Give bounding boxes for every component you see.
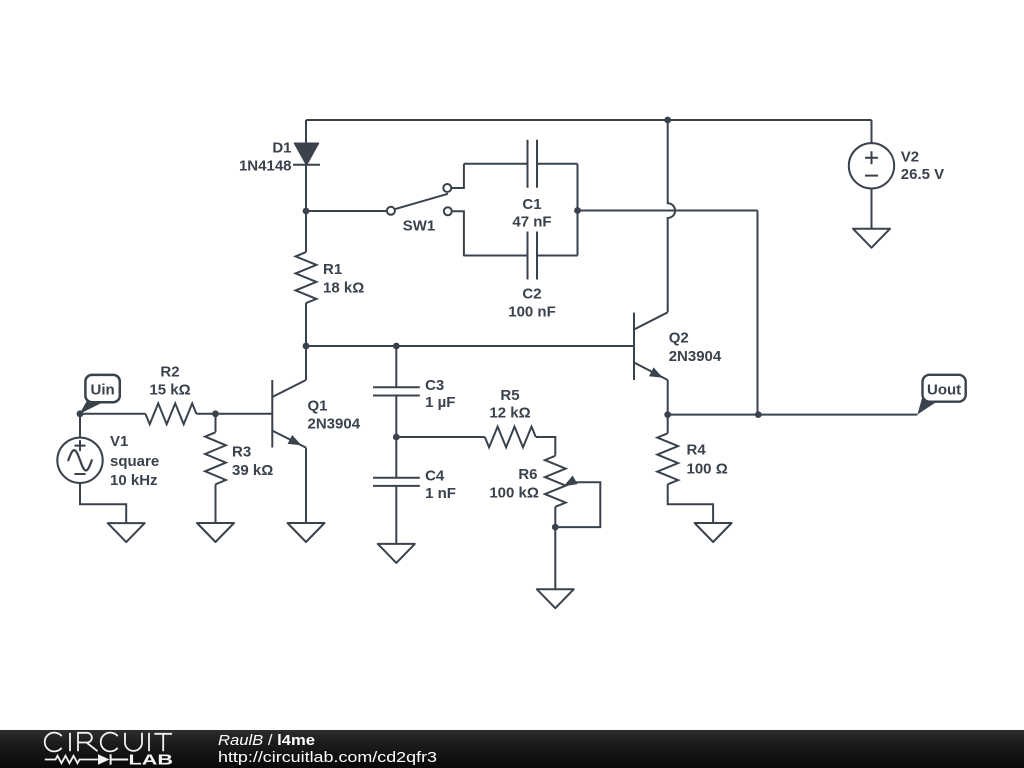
label C1 / 47 nF — [522, 196, 541, 213]
wire V1 to ground — [80, 483, 126, 523]
resistor R4 — [657, 415, 713, 523]
svg-text:C3: C3 — [425, 377, 444, 394]
node junction C-network output — [574, 207, 581, 214]
svg-text:C4: C4 — [425, 468, 445, 485]
logo letter U — [125, 733, 142, 751]
transistor Q2 — [633, 313, 635, 380]
node junction C3 top — [393, 343, 400, 350]
footer title RaulB / l4me — [218, 732, 315, 749]
resistor R2 — [145, 403, 272, 424]
node junction R2/R3/Q1 base — [212, 410, 219, 417]
wire V2 to ground — [871, 189, 873, 229]
logo letter T — [154, 734, 172, 751]
resistor R5 — [485, 427, 556, 456]
node junction C3/C4/R5 — [393, 434, 400, 441]
logo resistor glyph — [45, 756, 98, 763]
label C2 / 100 nF — [522, 286, 541, 303]
ground R3 — [197, 523, 234, 542]
ground R4 — [695, 523, 732, 542]
ground V2 — [853, 229, 890, 248]
svg-text:SW1: SW1 — [403, 218, 436, 235]
svg-text:10 kHz: 10 kHz — [110, 472, 158, 489]
flag Uout — [917, 397, 936, 414]
ground R6 — [537, 589, 574, 608]
wire base rail Q1-collector to Q2-base — [306, 345, 634, 347]
label V1 / square / 10 kHz — [110, 433, 128, 450]
wire SW1 throw1 to C-network top — [451, 164, 464, 188]
source V1 (square 10 kHz) — [57, 438, 102, 483]
wire Q2 collector vertical with hop over — [668, 120, 675, 312]
wire D1 anode from top rail — [305, 120, 307, 143]
wire C-network right side — [577, 164, 579, 256]
logo LAB text — [129, 753, 174, 768]
label C4 / 1 nF — [425, 468, 445, 485]
label R4 / 100 ohm — [687, 442, 707, 459]
wire right vertical down to output row — [757, 211, 759, 415]
label R3 / 39 k — [232, 444, 251, 461]
capacitor C1 — [528, 140, 538, 188]
switch SW1 blade — [395, 194, 448, 209]
svg-text:R1: R1 — [323, 261, 342, 278]
svg-text:47 nF: 47 nF — [512, 214, 551, 231]
node junction dot top rail / Q2 collector — [664, 117, 671, 124]
ground C4 — [378, 544, 415, 563]
ground Q1 emitter — [288, 523, 325, 542]
svg-text:C2: C2 — [522, 286, 541, 303]
node junction Q2 emitter / R4 — [664, 411, 671, 418]
wiper R6 — [564, 476, 578, 487]
label R5 / 12 k — [500, 387, 519, 404]
node junction R6 bottom / wiper — [552, 524, 559, 531]
svg-text:26.5 V: 26.5 V — [901, 166, 944, 183]
svg-text:R3: R3 — [232, 444, 251, 461]
svg-text:12 kΩ: 12 kΩ — [489, 404, 530, 421]
svg-text:1 nF: 1 nF — [425, 485, 456, 502]
svg-text:39 kΩ: 39 kΩ — [232, 462, 273, 479]
logo letter C — [101, 733, 118, 752]
svg-text:1N4148: 1N4148 — [239, 158, 292, 175]
svg-text:D1: D1 — [272, 140, 291, 157]
wire Q2 emitter down — [667, 380, 669, 415]
node A (D1/R1/SW1 junction) — [303, 208, 310, 215]
wire top rail to V2 — [871, 120, 873, 143]
wire input node to R2 — [80, 413, 145, 415]
wire Q1 collector up — [305, 346, 307, 380]
label SW1 — [403, 218, 436, 235]
node junction R1/Q1 collector — [303, 343, 310, 350]
svg-text:Q2: Q2 — [669, 330, 689, 347]
logo diode glyph — [98, 754, 110, 764]
svg-text:100 Ω: 100 Ω — [687, 460, 728, 477]
logo letter I — [69, 733, 71, 751]
logo letter C — [45, 733, 62, 752]
svg-text:R2: R2 — [160, 363, 179, 380]
svg-text:Uout: Uout — [927, 382, 961, 399]
switch SW1 throw terminal 2 — [444, 207, 452, 215]
logo letter I — [148, 733, 150, 751]
wire C-network to right vertical — [578, 210, 758, 212]
ground V1 — [108, 523, 145, 542]
flag Uin — [80, 401, 103, 414]
svg-text:100 nF: 100 nF — [508, 303, 556, 320]
svg-text:18 kΩ: 18 kΩ — [323, 280, 364, 297]
svg-text:Uin: Uin — [91, 382, 115, 399]
label R2 / 15 k — [160, 363, 179, 380]
label D1 / 1N4148 — [272, 140, 291, 157]
resistor R3 — [205, 414, 226, 523]
label Q1 / 2N3904 — [308, 398, 328, 415]
svg-text:100 kΩ: 100 kΩ — [489, 485, 539, 502]
node input junction (V1/Uin/R2) — [77, 410, 84, 417]
svg-text:LAB: LAB — [129, 753, 174, 768]
node junction output / right vertical — [755, 411, 762, 418]
wire SW1 throw2 to C-network bottom — [452, 211, 464, 256]
svg-text:R6: R6 — [518, 466, 537, 483]
label V2 / 26.5 V — [901, 149, 919, 166]
resistor R1 — [296, 211, 317, 346]
svg-text:2N3904: 2N3904 — [669, 348, 722, 365]
capacitor C3 — [395, 346, 397, 387]
footer url — [218, 749, 437, 766]
svg-text:V1: V1 — [110, 433, 128, 450]
label R6 / 100 k — [518, 466, 537, 483]
wire node A to SW1 — [306, 210, 387, 212]
wire D1 cathode to node — [305, 165, 307, 211]
svg-text:V2: V2 — [901, 149, 919, 166]
svg-text:RaulB / l4me: RaulB / l4me — [218, 732, 315, 749]
wire junction to R5 — [396, 436, 485, 438]
label C3 / 1 uF — [425, 377, 444, 394]
wire Q1 emitter down — [305, 448, 307, 523]
wire C1 top rail — [464, 163, 578, 165]
switch SW1 pole terminal — [387, 207, 395, 215]
capacitor C2 — [528, 232, 538, 280]
switch SW1 throw terminal 1 — [443, 184, 451, 192]
svg-text:2N3904: 2N3904 — [308, 416, 361, 433]
svg-text:C1: C1 — [522, 196, 541, 213]
logo letter R — [78, 733, 98, 751]
potentiometer R6 — [545, 456, 566, 589]
label R1 / 18 k — [323, 261, 342, 278]
label Q2 / 2N3904 — [669, 330, 689, 347]
svg-text:15 kΩ: 15 kΩ — [149, 382, 190, 399]
svg-text:square: square — [110, 453, 159, 470]
wire top rail — [306, 119, 872, 121]
wire C2 bottom rail — [464, 255, 578, 257]
capacitor C4 — [395, 437, 397, 478]
source V2 (26.5 V) — [849, 143, 894, 188]
svg-text:Q1: Q1 — [308, 398, 328, 415]
svg-text:R4: R4 — [687, 442, 707, 459]
wire output row — [668, 414, 918, 416]
svg-text:1 µF: 1 µF — [425, 394, 455, 411]
transistor Q1 — [271, 380, 273, 448]
svg-text:R5: R5 — [500, 387, 519, 404]
svg-text:http://circuitlab.com/cd2qfr3: http://circuitlab.com/cd2qfr3 — [218, 749, 437, 766]
diode D1 — [295, 143, 319, 165]
